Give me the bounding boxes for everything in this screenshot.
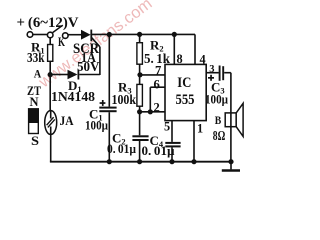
capacitor C4 plates xyxy=(165,142,180,144)
svg-text:555: 555 xyxy=(176,92,195,108)
junction SCR cathode node xyxy=(107,32,112,37)
svg-text:1: 1 xyxy=(197,122,203,136)
terminal + supply xyxy=(27,32,33,38)
svg-text:100k: 100k xyxy=(112,92,137,107)
svg-text:IC: IC xyxy=(177,75,191,91)
wire C2 top lead xyxy=(139,112,141,136)
wire terminal to switch xyxy=(33,34,47,36)
capacitor C2 plates xyxy=(132,135,148,137)
junction pin6 branch node xyxy=(148,109,153,114)
svg-text:8: 8 xyxy=(177,52,183,66)
SCR gate lead xyxy=(91,37,100,75)
svg-text:100µ: 100µ xyxy=(85,119,108,133)
wire pin 4 lead xyxy=(194,34,196,64)
capacitor C3 plates xyxy=(220,66,224,81)
junction R2 top node xyxy=(137,32,142,37)
wire C2 bottom lead xyxy=(139,141,141,162)
svg-text:6: 6 xyxy=(154,78,160,92)
wire switch to SCR anode xyxy=(68,34,81,36)
svg-text:8Ω: 8Ω xyxy=(213,128,226,143)
ground xyxy=(222,162,240,171)
switch K xyxy=(47,25,68,38)
svg-text:K: K xyxy=(58,35,65,49)
svg-text:+ (6~12)V: + (6~12)V xyxy=(17,15,79,31)
svg-text:3: 3 xyxy=(209,64,214,75)
svg-text:50V: 50V xyxy=(77,60,100,75)
wire C1 top lead xyxy=(108,35,110,107)
svg-text:100µ: 100µ xyxy=(205,93,228,107)
svg-text:R2: R2 xyxy=(150,38,164,54)
watermark www.elecfans.com xyxy=(35,0,156,92)
wire node A to D1 anode xyxy=(52,74,68,76)
magnet ZT body xyxy=(29,109,39,134)
diode D1 cathode bar xyxy=(78,70,80,80)
junction pin7 node xyxy=(137,72,142,77)
junction C4 bottom node xyxy=(169,159,174,164)
svg-text:1N4148: 1N4148 xyxy=(51,89,95,104)
capacitor C1 plus sign xyxy=(100,100,106,106)
wire C1 bottom lead xyxy=(108,112,110,162)
wire pin 1 lead xyxy=(193,121,195,162)
junction C1 bottom node xyxy=(107,159,112,164)
wire bottom rail xyxy=(50,161,231,163)
svg-text:B: B xyxy=(215,113,222,127)
junction pin1 bottom node xyxy=(191,159,196,164)
wire C4 bottom lead xyxy=(171,147,173,161)
magnet ZT north pole fill xyxy=(29,109,39,123)
resistor R1 xyxy=(48,38,53,75)
wire top rail SCR cathode to pin4 corner xyxy=(92,33,195,35)
svg-text:33k: 33k xyxy=(27,50,45,65)
wire pin 6 branch xyxy=(150,87,165,112)
SCR cathode bar xyxy=(90,30,92,42)
wire C3 to speaker column xyxy=(224,73,231,162)
wire D1 cathode to SCR gate xyxy=(79,74,100,76)
speaker B xyxy=(225,103,243,136)
wire pin 8 lead xyxy=(173,34,175,64)
resistor R3 xyxy=(137,75,143,112)
junction pin2 node xyxy=(137,109,142,114)
junction C2 bottom node xyxy=(137,159,142,164)
svg-text:0. 01µ: 0. 01µ xyxy=(142,144,175,158)
diode D1 triangle xyxy=(68,70,78,80)
reed switch JA xyxy=(45,111,57,135)
wire pin 2 xyxy=(140,111,165,113)
wire pin 3 lead xyxy=(206,72,219,74)
capacitor C3 plus sign xyxy=(208,75,214,81)
junction pin8 node xyxy=(172,32,177,37)
node A xyxy=(48,72,53,77)
svg-text:A: A xyxy=(34,69,42,81)
svg-text:4: 4 xyxy=(200,53,206,67)
wire pin 5 lead to C4 xyxy=(171,121,173,142)
junction ground node xyxy=(228,159,233,164)
svg-text:7: 7 xyxy=(155,64,161,78)
wire reed switch down to bottom rail xyxy=(50,135,52,162)
svg-text:2: 2 xyxy=(154,101,160,115)
svg-text:S: S xyxy=(31,134,39,148)
svg-text:N: N xyxy=(30,95,39,109)
op-amp U1 IC 555 box xyxy=(165,64,206,120)
svg-text:JA: JA xyxy=(60,113,75,128)
capacitor C1 plates xyxy=(99,107,116,109)
wire pin 7 xyxy=(140,74,165,76)
wire node A down to reed switch xyxy=(49,75,51,111)
SCR thyristor triangle xyxy=(81,30,91,40)
svg-text:5: 5 xyxy=(164,120,170,134)
resistor R2 xyxy=(137,34,143,74)
svg-text:0. 01µ: 0. 01µ xyxy=(107,142,136,156)
